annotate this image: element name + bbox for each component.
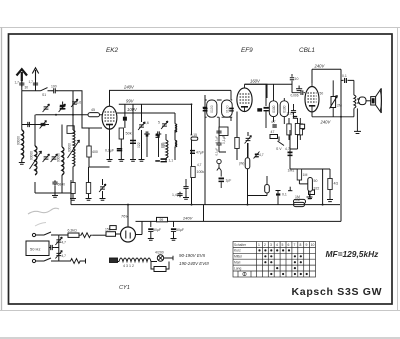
page scan edge bottom [0,310,400,312]
vertical from bus to CY1 [127,205,129,227]
vertical x292 with series cap 10 [291,74,293,93]
svg-text:9: 9 [306,243,308,247]
svg-text:4,7: 4,7 [259,153,264,157]
zigzag resistor 50 top [79,233,93,238]
bus junction dots [127,204,129,206]
resistor 0,15 pill horizontal [191,137,198,140]
output transformer coil [354,95,356,108]
svg-text:EF9: EF9 [241,47,253,54]
EK2 cathode wire [110,104,134,157]
cap 1,4uF [177,192,182,198]
svg-text:0,1µF: 0,1µF [105,149,114,153]
page scan edge left [1,28,3,312]
variable cap arrow C3 [71,99,78,107]
ground under L1 [19,160,25,164]
svg-text:99: 99 [160,218,164,222]
wire y195.5 [248,193,268,196]
svg-text:100: 100 [51,85,57,89]
svg-text:45: 45 [91,108,95,112]
dark cap on x231 [229,108,234,112]
svg-text:1,7: 1,7 [29,80,34,84]
vertical wire x247.5 down [247,143,249,205]
svg-text:47: 47 [271,130,275,134]
bottom dark caps left [155,160,160,162]
svg-text:0100: 0100 [225,105,229,113]
CY1 to heater bus [136,221,143,234]
resistor 1M vertical [297,169,301,180]
svg-text:0,1µF: 0,1µF [215,148,219,156]
dark cap left [156,134,160,138]
resistor v left low a [71,183,75,194]
svg-text:400: 400 [92,150,98,154]
dark cap left column [219,178,225,183]
svg-text:47µF: 47µF [196,151,204,155]
svg-text:100k: 100k [197,170,205,174]
EF9 lower-left components caps [216,129,221,135]
bottom loop wire y116.8 [312,108,354,116]
svg-text:0100: 0100 [210,105,214,113]
svg-text:50µF: 50µF [176,228,184,232]
240V top bus [312,69,341,83]
svg-text:Schalter: Schalter [234,243,247,247]
page scan edge right [397,28,399,312]
switch SV diagonal [278,137,285,146]
band filter small box [67,126,74,134]
svg-text:S V: S V [276,147,282,151]
svg-text:2M: 2M [337,104,342,108]
resistor box right top [106,232,116,237]
svg-text:Mari: Mari [234,261,241,265]
vertical x322.6 from y169 to bus [322,169,324,205]
page scan edge top [0,27,400,29]
grid stopper resistor 45 (pill) [88,113,100,117]
coil L3 [62,147,64,175]
antenna arrow thin A2 [32,68,38,80]
svg-text:190-240V EVIII: 190-240V EVIII [179,261,210,266]
svg-text:240V: 240V [314,64,326,69]
svg-text:30: 30 [25,86,29,90]
svg-text:100V: 100V [127,107,138,112]
screen resistor dark box [257,108,262,111]
mains terminal bottom [32,259,35,262]
caps to gnd near x184-193 [183,185,188,191]
wire bottoms of coils [35,176,73,193]
small dark square [302,127,305,130]
rectifier tube CY1 [121,227,136,242]
svg-text:00000: 00000 [68,143,72,152]
svg-text:10: 10 [295,77,299,81]
schematic border frame [9,34,393,304]
svg-text:0,1: 0,1 [282,193,287,197]
svg-text:1: 1 [258,243,260,247]
resistor 02 tall pill [308,178,313,192]
cap 47uF electrolytic [190,151,195,154]
resistor 1 ohm box [110,226,116,230]
svg-text:10: 10 [311,243,315,247]
osc line x175 [174,113,176,160]
svg-text:5,6: 5,6 [144,121,149,125]
lamp shunt resistor box [154,267,166,272]
osc coil upper on x175 [175,124,177,133]
heater bus y221 [136,220,342,222]
svg-text:(W): (W) [239,162,244,166]
variable arrow under EF9 [245,136,252,144]
vertical x203.5 short [203,205,205,222]
svg-text:CY1: CY1 [119,285,130,291]
switch S1 on H1 [41,88,48,91]
tube EF9 envelope [237,88,252,112]
trimmer C2 [59,104,66,112]
speaker magnet [371,97,376,105]
coil L4 [73,130,75,148]
svg-text:4,7: 4,7 [285,147,290,151]
vertical x266 with dark cap [265,84,267,128]
wire to box 100 [93,234,106,236]
svg-text:90-190V EVII: 90-190V EVII [179,253,206,258]
dark bar cap 47 [272,125,276,127]
vertical wire x191.5 [191,104,193,204]
svg-text:Kurz: Kurz [234,249,241,253]
cap pair row y133 [144,131,150,136]
svg-text:5,6: 5,6 [77,101,82,105]
svg-text:4,7: 4,7 [197,163,202,167]
svg-text:1,1: 1,1 [169,159,174,163]
long vertical x341 [340,69,342,221]
resistor 1M pill low [294,199,306,203]
svg-text:99V: 99V [126,99,135,104]
resistor 100k vertical [191,167,195,178]
table dots [258,249,307,275]
svg-text:6: 6 [288,243,290,247]
center vertical line [58,235,60,261]
mains plate box 50Hz [26,241,49,256]
mains switch bottom [36,258,69,261]
antenna coil L1 [22,130,24,159]
wire y169 under CBL1 [290,168,330,170]
svg-text:50k: 50k [126,132,132,136]
cap to ground T [296,86,302,91]
resistor 400 vertical [87,146,91,157]
electrolytic cap mid [130,141,136,144]
filter cap 50uF b [173,221,175,227]
EF9 anode 160V line [245,84,268,98]
svg-text:160V: 160V [250,78,261,83]
vertical wire x205 [204,95,206,205]
99V line [119,103,192,105]
filled coupling cap blob [60,105,66,110]
cathode pill resistor EF9 [245,158,250,169]
suppression cap top 4,7 [55,237,62,245]
variable arrow low c [99,184,106,192]
speaker cone [376,88,382,113]
svg-text:CBL1: CBL1 [299,47,315,54]
svg-text:0,1µF: 0,1µF [215,136,219,144]
resistor left of CBL1 [295,124,299,135]
faint pencil stroke 2 [35,223,46,227]
trimmer 5,6 [138,122,145,130]
svg-text:00000: 00000 [16,136,20,145]
capacitor under A2 [33,81,38,87]
tube EK2 envelope [102,106,117,129]
svg-text:50µF: 50µF [153,228,161,232]
trimmer L-block a [43,154,50,162]
wire connector to speaker [366,100,371,102]
cathode resistor 50k [119,128,123,139]
junction dots on H2 [55,114,57,116]
anode line y84 [245,83,293,85]
svg-text:50: 50 [320,92,324,96]
filter cap 50uF a [150,221,152,227]
tube CBL1 envelope [305,87,319,112]
trimmer mid 5 [161,121,168,129]
IF2 coil pill A [269,101,277,117]
dial lamp 4/200 [151,261,157,263]
resistor v 50k under EF9 [235,138,239,149]
svg-text:50 Hz: 50 Hz [30,247,40,252]
svg-text:4,7: 4,7 [271,120,276,124]
svg-text:1M1: 1M1 [288,169,295,173]
svg-text:6,3kΩ: 6,3kΩ [68,229,78,233]
resistor 47 + switch [270,135,278,139]
left end of bus up [70,180,72,205]
antenna arrow thick A1 [17,69,28,81]
component box below coils [219,127,228,136]
trimmer C1 [43,104,50,112]
svg-text:240V: 240V [320,120,332,125]
svg-text:8: 8 [300,243,302,247]
dark junction cluster [161,158,167,162]
osc coil lower on x175 [175,140,177,147]
cathode box left of CBL1 [300,124,305,128]
coil 020 [166,140,168,158]
top wire over coils [205,90,232,100]
mains terminal top [32,233,35,236]
IF coil pill A [207,100,217,117]
mains switch top [36,232,59,235]
tuning arrow across L4 [68,140,80,158]
small cap right [288,190,292,192]
chassis bus y204.6 [71,204,340,206]
svg-text:4Ω: 4Ω [334,182,339,186]
zigzag resistor bottom [69,259,83,264]
svg-text:1M: 1M [295,198,300,202]
svg-text:322: 322 [314,187,320,191]
bottom wire under coils [205,117,232,127]
IF coil pill B [222,100,233,117]
svg-text:00000: 00000 [30,151,34,160]
left column circle symbol [217,159,221,163]
resistor pill v a [287,124,291,135]
tube EF9 internals [240,84,250,111]
IF2 coil pill B [280,101,288,117]
cap 0,1 to bus [276,190,281,192]
wire to EK2 lower grid [89,127,102,129]
box 0,05 + gnd [309,190,315,195]
resistor 6,3k box [68,233,79,237]
vertical from H1 corner x82 [82,115,89,128]
faint pencil scribble [28,208,59,214]
wire vertical x73 [73,91,82,125]
dark cap on x205 [203,108,208,112]
svg-text:0,006: 0,006 [291,94,299,98]
wire antenna downleads [22,80,36,91]
heater chain bumps [119,258,151,262]
svg-text:022: 022 [137,142,141,148]
band switch table [233,242,316,278]
svg-text:5: 5 [158,121,160,125]
svg-text:2: 2 [264,243,266,247]
capacitor on H3 [26,122,32,127]
ground bars under EK2 parts [107,157,113,161]
svg-text:S1: S1 [42,93,46,97]
cap 0,1uF on cathode [117,149,122,151]
smoothing resistor 99 pill [157,217,168,221]
svg-text:240V: 240V [182,216,193,221]
svg-text:4: 4 [276,243,278,247]
svg-text:EK2: EK2 [106,47,119,54]
svg-text:0,1: 0,1 [342,74,347,78]
tone cap 0,01 left of CBL1 [291,109,296,115]
tuning arrow across L2 [30,151,42,169]
svg-text:6800: 6800 [58,183,66,187]
svg-text:Kapsch S3S GW: Kapsch S3S GW [292,286,383,298]
coupling wire to CBL1 grid [292,92,305,94]
voice coil connector [359,97,366,105]
resistor 1M pill on bus [294,202,305,206]
pill resistor right [265,185,270,193]
tube EK2 internal grids [105,104,115,129]
suppression cap bottom 4,7 [55,251,62,259]
junction blob right of EK2 [123,117,127,121]
svg-text:4,7: 4,7 [62,254,67,258]
svg-text:4/200: 4/200 [155,251,164,255]
svg-text:50: 50 [314,179,318,183]
svg-text:0100: 0100 [272,105,276,112]
filled cap on x205 [203,107,208,112]
svg-text:Lang: Lang [234,266,242,270]
dark cathode cap blob [288,152,293,157]
wire y167 [89,166,110,168]
svg-text:4 3 1 2: 4 3 1 2 [123,264,134,268]
line y80.4 with cap 47 [341,80,354,95]
variable resistor 2M with arrow [331,97,336,108]
svg-text:MF=129,5kHz: MF=129,5kHz [326,249,380,259]
wire H3 lower left [22,124,49,126]
trimmer on H3 [40,121,47,129]
cap from box to center line [49,245,55,250]
resistor pill v b [298,124,302,135]
capacitor under A1 [19,81,24,87]
svg-text:1M: 1M [303,173,308,177]
svg-text:76V: 76V [121,214,128,219]
trimmer dark blob [255,154,259,158]
svg-text:4,7: 4,7 [62,241,67,245]
svg-text:0,1µF: 0,1µF [222,135,226,144]
speaker ground [356,108,358,131]
wire box to CY1 [116,233,121,235]
100V line [117,112,175,114]
svg-text:1µF: 1µF [226,179,232,183]
svg-text:020: 020 [160,142,164,148]
trimmer L-block b [51,154,58,162]
svg-text:Mittel: Mittel [234,255,242,259]
resistor v left low b [86,183,90,194]
svg-text:7: 7 [294,243,296,247]
cap 6800 to ground [52,180,57,186]
svg-text:1,4µF: 1,4µF [172,193,181,197]
cap under coils [293,116,297,118]
tube CBL1 internals [307,84,316,112]
wire H1 antenna line [22,91,82,104]
svg-text:1,7: 1,7 [15,81,20,85]
series capacitor 100 on H1 [52,88,58,93]
EK2 anode to 240V bus [110,90,232,103]
svg-text:5: 5 [282,243,284,247]
svg-text:3: 3 [270,243,272,247]
resistor 4ohm [328,179,332,190]
photo bottom edge [0,337,400,339]
svg-text:240V: 240V [123,85,135,90]
wire to resistor [59,234,68,236]
wire H2 grid line [36,114,103,116]
oscillator coil L2 [35,146,37,175]
heater feed box dark [110,258,118,263]
